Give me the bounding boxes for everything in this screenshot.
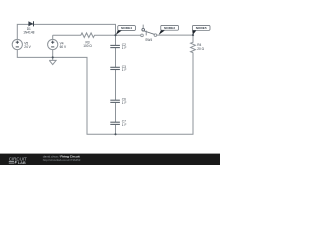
svg-text:1N4148: 1N4148 [23,31,34,35]
svg-text:60 V: 60 V [60,45,67,49]
svg-text:100 Ω: 100 Ω [83,44,92,48]
svg-text:24 V: 24 V [24,45,31,49]
svg-text:SW4: SW4 [145,38,152,42]
svg-text:LAB: LAB [18,160,26,165]
svg-text:http://circuitlab.com/c/736453: http://circuitlab.com/c/736453 [43,158,81,162]
svg-text:1 F: 1 F [122,101,127,105]
svg-text:1 F: 1 F [122,46,127,50]
svg-text:NODE3: NODE3 [164,26,175,30]
svg-text:NODE4: NODE4 [121,26,132,30]
svg-text:NODE5: NODE5 [196,26,207,30]
svg-text:1 F: 1 F [122,68,127,72]
svg-text:1 F: 1 F [122,123,127,127]
svg-text:20 Ω: 20 Ω [197,47,204,51]
